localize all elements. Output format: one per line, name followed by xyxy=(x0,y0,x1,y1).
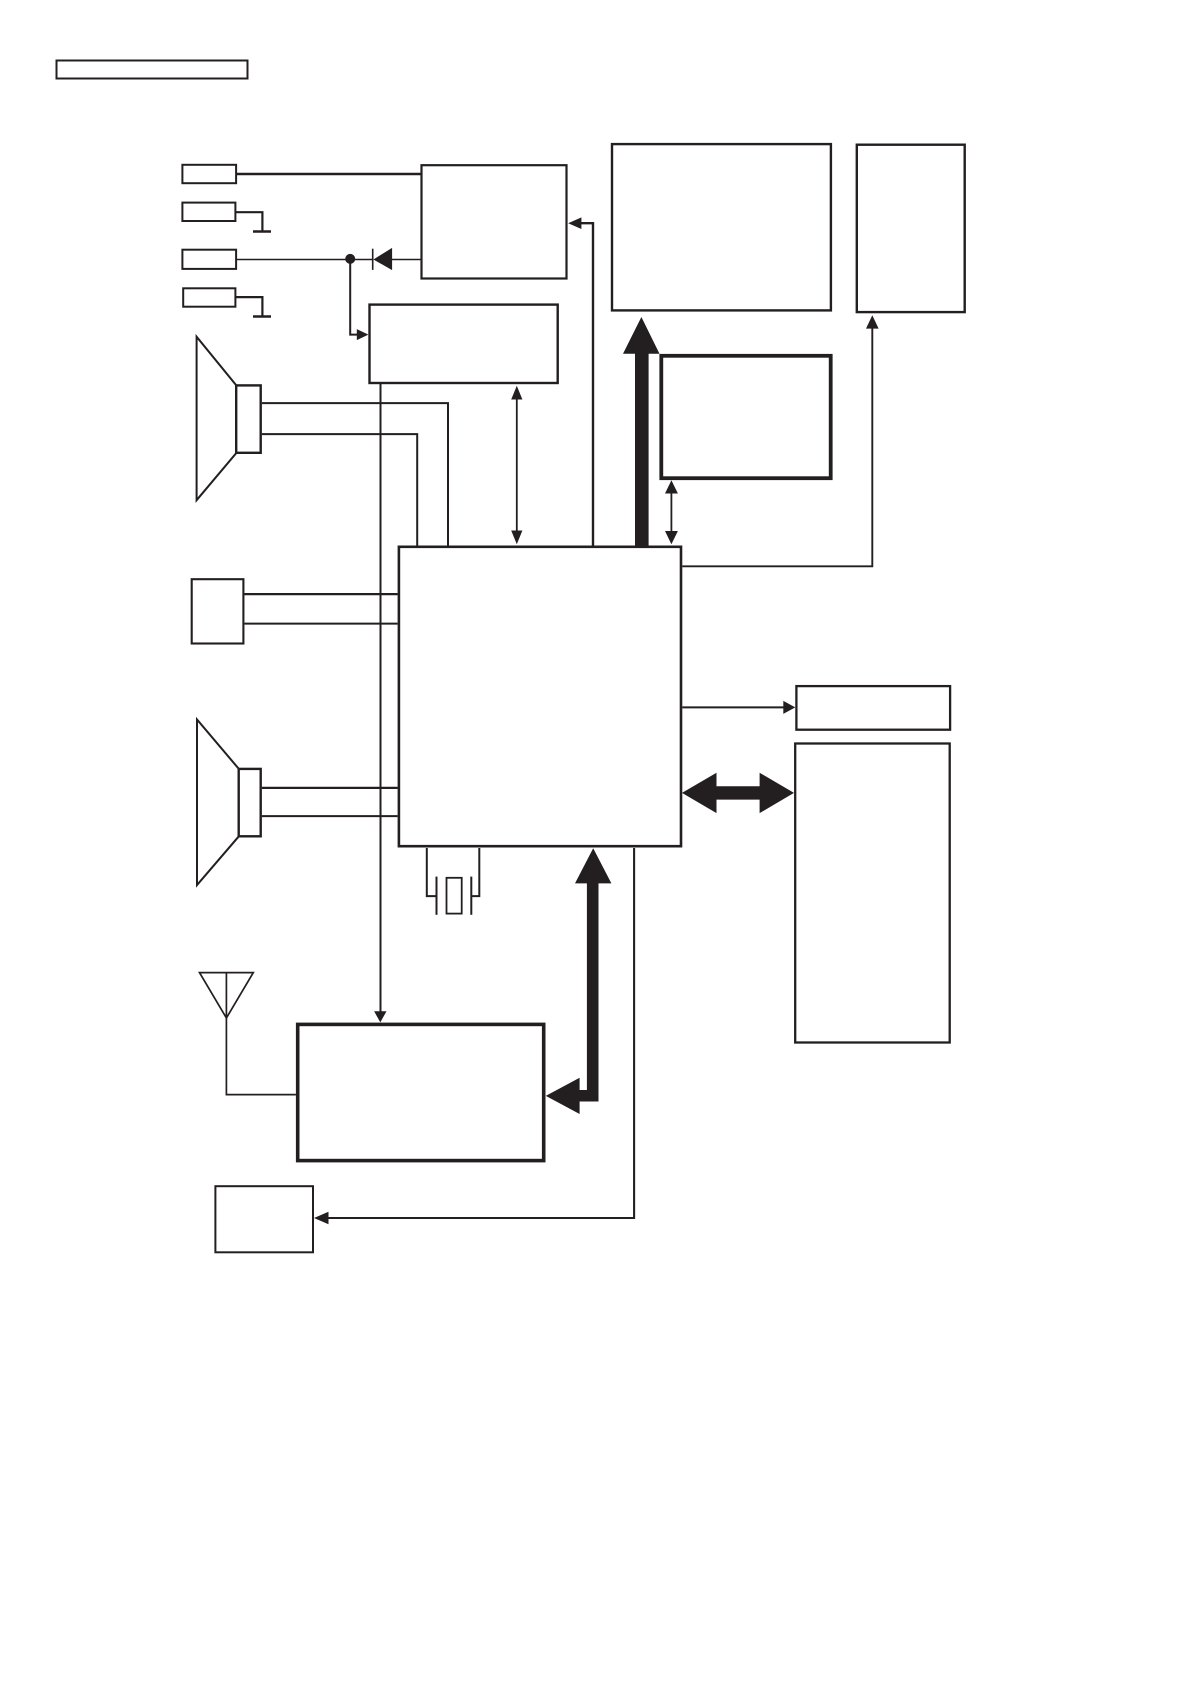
double arrow U2-CPU xyxy=(511,386,522,544)
wire J3 to diode xyxy=(236,259,372,261)
speaker SP2 xyxy=(197,720,261,886)
wire SP2 b xyxy=(262,815,398,817)
wire CPU to box B xyxy=(682,315,878,566)
wire CPU to right small box xyxy=(682,701,795,714)
speaker SP1 xyxy=(197,337,261,501)
double arrow boxC-CPU xyxy=(665,480,678,544)
wire SP2 a xyxy=(262,787,398,789)
wire diode to U1 xyxy=(392,259,422,261)
connector J1 xyxy=(182,165,236,183)
box right tall xyxy=(795,744,950,1043)
CPU box xyxy=(399,547,681,846)
wire keypad a xyxy=(244,593,397,595)
box B top right xyxy=(857,145,965,312)
wire U2 to RF long vertical xyxy=(380,384,382,1012)
node junction dot xyxy=(345,254,355,264)
connector J3 xyxy=(182,250,236,269)
thick double arrow CPU-right tall box xyxy=(682,773,794,813)
arrowhead into U2 xyxy=(357,329,369,340)
antenna xyxy=(200,973,296,1095)
connector J4 xyxy=(183,288,235,306)
wire keypad b xyxy=(244,623,397,625)
box C driver xyxy=(661,356,830,478)
box right small xyxy=(796,686,950,730)
crystal X1 xyxy=(427,848,480,915)
box A top xyxy=(612,144,831,310)
arrowhead into RF top xyxy=(374,1011,386,1022)
diode D1 xyxy=(373,248,392,270)
thick L arrow CPU-RF xyxy=(546,848,612,1114)
thick arrow CPU to box A xyxy=(623,317,660,546)
wire J4 to ground xyxy=(235,297,262,315)
wire node to U2 xyxy=(350,259,357,335)
wire SP1 a xyxy=(262,403,448,545)
ground G2 xyxy=(253,315,271,317)
box U2 xyxy=(370,305,558,383)
box bottom xyxy=(215,1186,313,1252)
wire SP1 b xyxy=(262,434,417,545)
wire CPU to U1 xyxy=(568,217,593,545)
ground G1 xyxy=(253,230,271,232)
RF module box xyxy=(298,1024,544,1160)
connector J2 xyxy=(182,203,235,221)
wire CPU to bottom box xyxy=(314,848,634,1224)
keypad box xyxy=(192,579,244,643)
wire J2 to ground xyxy=(235,212,262,230)
title box xyxy=(57,61,248,79)
wire J1 to U1 xyxy=(236,173,421,176)
regulator U1 xyxy=(422,165,567,278)
